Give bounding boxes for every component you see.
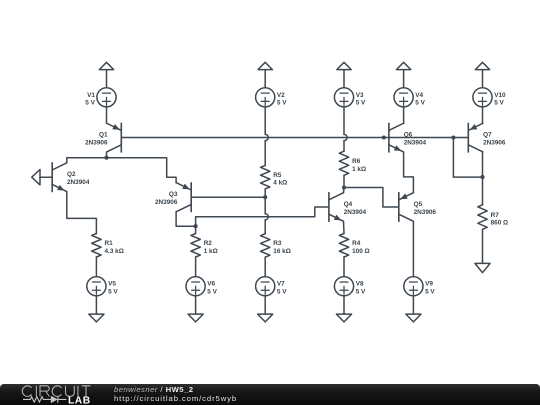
svg-text:V10: V10 xyxy=(494,92,506,99)
voltage source V5 5 V xyxy=(87,277,119,296)
wire V10 to Q7 emitter xyxy=(482,107,484,123)
svg-text:2N3904: 2N3904 xyxy=(344,209,367,216)
wire node to Q4 base xyxy=(196,207,329,226)
transistor Q3 2N3906 xyxy=(155,183,191,212)
svg-text:2N3904: 2N3904 xyxy=(67,179,90,186)
resistor R1 4.3 k&#937; xyxy=(92,234,124,258)
wire R2 top xyxy=(195,226,197,233)
voltage source V8 5 V xyxy=(334,277,366,296)
transistor Q4 2N3904 xyxy=(329,193,367,222)
transistor Q7 2N3906 xyxy=(468,123,506,152)
svg-text:2N3906: 2N3906 xyxy=(483,140,506,147)
svg-text:Q5: Q5 xyxy=(414,201,423,208)
junction Q7 collector / R7 / feedback xyxy=(480,175,484,179)
svg-text:Q7: Q7 xyxy=(483,132,492,139)
svg-text:2N3906: 2N3906 xyxy=(414,209,437,216)
transistor Q2 2N3904 xyxy=(52,163,90,192)
junction Q3 base / R5 / R3 xyxy=(263,195,267,199)
wire V4 to Q6 collector xyxy=(403,107,405,123)
svg-text:V6: V6 xyxy=(207,281,215,288)
svg-text:V9: V9 xyxy=(425,281,433,288)
svg-text:5 V: 5 V xyxy=(356,289,366,296)
svg-text:16 kΩ: 16 kΩ xyxy=(273,248,291,255)
wire V2 down with hop xyxy=(265,107,268,165)
wire R6 to node xyxy=(343,175,345,187)
svg-text:4 kΩ: 4 kΩ xyxy=(273,180,287,187)
wire R2 to V6 xyxy=(195,257,197,277)
svg-text:4.3 kΩ: 4.3 kΩ xyxy=(105,248,124,255)
wire Q7 collector down xyxy=(482,152,484,205)
svg-text:V2: V2 xyxy=(277,92,285,99)
ground below V7 xyxy=(258,296,273,322)
voltage source V10 5 V xyxy=(473,88,506,107)
CircuitLab logo xyxy=(8,384,118,405)
VCC arrow above V2 xyxy=(258,62,272,87)
resistor R5 4 k&#937; xyxy=(261,165,288,189)
svg-text:5 V: 5 V xyxy=(277,289,287,296)
svg-text:Q3: Q3 xyxy=(169,191,178,198)
resistor R7 860 &#937; xyxy=(478,205,508,230)
svg-text:Q2: Q2 xyxy=(67,171,76,178)
transistor Q1 2N3906 xyxy=(85,123,121,152)
transistor Q6 2N3904 xyxy=(389,123,427,152)
svg-text:860 Ω: 860 Ω xyxy=(491,220,509,227)
svg-text:1 kΩ: 1 kΩ xyxy=(204,248,218,255)
wire R4 to V8 xyxy=(343,257,345,277)
svg-text:V5: V5 xyxy=(108,281,116,288)
wire R7 to VEE xyxy=(482,229,484,263)
junction bus / feedback xyxy=(451,135,455,139)
svg-text:R7: R7 xyxy=(491,212,500,219)
svg-text:V1: V1 xyxy=(87,92,95,99)
svg-text:R2: R2 xyxy=(204,240,213,247)
VCC arrow above V4 xyxy=(396,62,410,87)
voltage source V1 5 V xyxy=(85,88,116,107)
resistor R2 1 k&#937; xyxy=(191,234,218,258)
junction bus / Q6 base xyxy=(382,135,386,139)
ground below V5 xyxy=(89,296,104,322)
svg-text:2N3906: 2N3906 xyxy=(85,140,108,147)
wire node down to R3 with hop xyxy=(265,197,268,234)
svg-text:LAB: LAB xyxy=(68,396,91,405)
wire V3 down with hop xyxy=(344,107,347,151)
svg-text:R6: R6 xyxy=(352,158,361,165)
wire feedback down xyxy=(453,138,482,178)
svg-text:V4: V4 xyxy=(415,92,423,99)
svg-text:Q1: Q1 xyxy=(99,132,108,139)
wire Q6 emitter to Q5 emitter xyxy=(404,152,414,193)
ground below V6 xyxy=(188,296,203,322)
svg-text:2N3904: 2N3904 xyxy=(404,140,427,147)
wire Q2 emitter to R1 xyxy=(67,192,97,234)
VCC arrow above V10 xyxy=(475,62,489,87)
ground below V8 xyxy=(336,296,351,322)
junction R6 / Q4 collector / Q5 base xyxy=(342,185,346,189)
junction Q3 collector / R2 xyxy=(194,224,198,228)
resistor R3 16 k&#937; xyxy=(261,234,291,258)
transistor Q5 2N3906 xyxy=(399,193,437,222)
svg-text:5 V: 5 V xyxy=(415,100,425,107)
footer credits text xyxy=(114,385,237,403)
footer bar xyxy=(0,384,540,405)
svg-text:5 V: 5 V xyxy=(277,100,287,107)
wire Q3 base to R5/R3 node xyxy=(191,196,265,198)
svg-text:V8: V8 xyxy=(356,281,364,288)
svg-text:5 V: 5 V xyxy=(425,289,435,296)
svg-text:5 V: 5 V xyxy=(85,100,95,107)
svg-text:1 kΩ: 1 kΩ xyxy=(352,166,366,173)
voltage source V2 5 V xyxy=(256,88,288,107)
VEE arrow below R7 xyxy=(475,263,490,272)
voltage source V3 5 V xyxy=(334,88,366,107)
VCC arrow above V3 xyxy=(337,62,351,87)
svg-text:5 V: 5 V xyxy=(207,289,217,296)
wire Q1 collector to node xyxy=(106,152,108,158)
svg-text:R1: R1 xyxy=(105,240,114,247)
wire Q3 collector down xyxy=(176,212,196,227)
wire long base bus y=137.5 xyxy=(121,137,468,139)
wire V1 to Q1 emitter xyxy=(106,107,108,123)
svg-text:V7: V7 xyxy=(277,281,285,288)
svg-text:5 V: 5 V xyxy=(494,100,504,107)
svg-text:R4: R4 xyxy=(352,240,361,247)
junction Q1 collector / Q2 collector xyxy=(104,156,108,160)
wire Q4 collector to node xyxy=(343,188,346,193)
VCC arrow above V1 xyxy=(99,62,113,87)
voltage source V7 5 V xyxy=(256,277,288,296)
wire R3 to V7 xyxy=(264,257,266,276)
svg-text:V3: V3 xyxy=(356,92,364,99)
wire Q4 emitter to R4 xyxy=(343,221,346,233)
wire node to Q5 base xyxy=(344,188,399,208)
input port arrow at Q2 base xyxy=(32,170,53,185)
svg-text:R5: R5 xyxy=(273,172,282,179)
resistor R6 1 k&#937; xyxy=(339,151,366,175)
wire Q2 collector up to bus2 xyxy=(67,158,176,183)
ground below V9 xyxy=(406,296,421,322)
wire Q5 collector to V9 xyxy=(412,221,414,276)
resistor R4 100 &#937; xyxy=(339,234,369,258)
svg-text:2N3906: 2N3906 xyxy=(155,199,178,206)
svg-text:Q4: Q4 xyxy=(344,201,353,208)
svg-text:5 V: 5 V xyxy=(356,100,366,107)
wire R5 to node xyxy=(264,189,266,197)
svg-text:Q6: Q6 xyxy=(404,132,413,139)
voltage source V6 5 V xyxy=(186,277,218,296)
logo wire + resistor + diode xyxy=(23,396,67,403)
svg-text:100 Ω: 100 Ω xyxy=(352,248,370,255)
wire R1 to V5 xyxy=(95,257,97,277)
svg-text:5 V: 5 V xyxy=(108,289,118,296)
voltage source V4 5 V xyxy=(394,88,426,107)
voltage source V9 5 V xyxy=(404,277,436,296)
svg-text:R3: R3 xyxy=(273,240,282,247)
